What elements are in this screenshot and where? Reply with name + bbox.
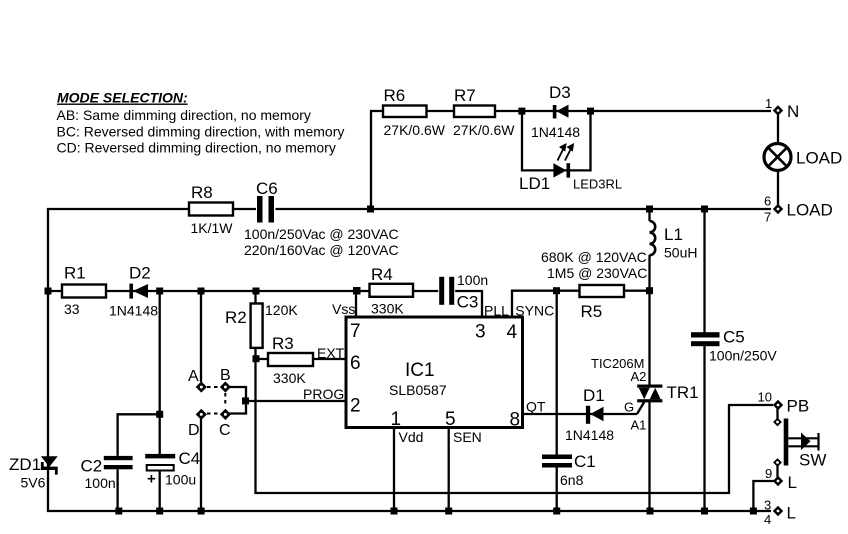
svg-text:L: L — [788, 473, 797, 492]
svg-text:3: 3 — [764, 498, 771, 513]
svg-text:PLL: PLL — [484, 303, 509, 319]
svg-text:L1: L1 — [664, 225, 683, 244]
svg-text:5V6: 5V6 — [21, 475, 46, 491]
svg-text:R1: R1 — [64, 264, 86, 283]
svg-text:IC1: IC1 — [405, 360, 435, 381]
svg-text:SYNC: SYNC — [515, 303, 554, 319]
svg-text:R6: R6 — [384, 86, 406, 105]
svg-text:C4: C4 — [179, 449, 201, 468]
svg-text:27K/0.6W: 27K/0.6W — [453, 122, 515, 138]
svg-text:100n: 100n — [85, 475, 116, 491]
svg-text:PB: PB — [787, 397, 810, 416]
svg-text:680K @ 120VAC: 680K @ 120VAC — [541, 249, 647, 265]
svg-text:EXT: EXT — [317, 345, 345, 361]
svg-text:R7: R7 — [454, 86, 476, 105]
svg-text:1N4148: 1N4148 — [531, 124, 580, 140]
svg-text:3: 3 — [475, 322, 486, 343]
svg-text:SEN: SEN — [453, 429, 482, 445]
svg-text:A1: A1 — [631, 418, 647, 433]
svg-text:LOAD: LOAD — [787, 201, 833, 220]
svg-text:100u: 100u — [165, 472, 196, 488]
svg-text:8: 8 — [510, 410, 521, 431]
svg-text:6: 6 — [764, 194, 771, 209]
svg-text:C3: C3 — [457, 293, 479, 312]
svg-text:SLB0587: SLB0587 — [389, 382, 447, 398]
svg-text:10: 10 — [758, 390, 772, 405]
svg-text:1N4148: 1N4148 — [565, 427, 614, 443]
svg-text:R8: R8 — [191, 183, 213, 202]
svg-text:A2: A2 — [631, 369, 647, 384]
svg-text:R3: R3 — [272, 334, 294, 353]
svg-text:Vdd: Vdd — [399, 429, 424, 445]
svg-text:D3: D3 — [549, 83, 571, 102]
svg-text:SW: SW — [799, 451, 826, 470]
svg-text:D2: D2 — [129, 264, 151, 283]
svg-text:2: 2 — [350, 396, 361, 417]
svg-text:1N4148: 1N4148 — [109, 303, 158, 319]
svg-text:N: N — [787, 102, 799, 121]
svg-text:LED3RL: LED3RL — [573, 177, 622, 192]
svg-text:1: 1 — [391, 409, 402, 430]
svg-text:R5: R5 — [581, 302, 603, 321]
svg-text:QT: QT — [526, 399, 546, 415]
svg-text:100n/250Vac @ 230VAC: 100n/250Vac @ 230VAC — [244, 226, 399, 242]
svg-text:Vss: Vss — [332, 301, 355, 317]
svg-text:C2: C2 — [81, 457, 103, 476]
svg-text:A: A — [188, 368, 199, 385]
svg-text:+: + — [147, 471, 156, 488]
svg-text:BC: Reversed dimming direction: BC: Reversed dimming direction, with mem… — [57, 124, 345, 140]
svg-text:120K: 120K — [265, 302, 298, 318]
svg-text:CD: Reversed dimming direction: CD: Reversed dimming direction, no memor… — [57, 140, 336, 156]
svg-text:33: 33 — [64, 301, 80, 317]
svg-text:220n/160Vac @ 120VAC: 220n/160Vac @ 120VAC — [244, 242, 399, 258]
svg-text:1M5 @ 230VAC: 1M5 @ 230VAC — [547, 265, 647, 281]
svg-text:6n8: 6n8 — [560, 472, 584, 488]
svg-text:TR1: TR1 — [667, 383, 699, 402]
svg-text:R2: R2 — [225, 308, 247, 327]
svg-text:1K/1W: 1K/1W — [191, 220, 234, 236]
svg-text:4: 4 — [764, 512, 771, 527]
svg-text:7: 7 — [350, 321, 361, 342]
svg-text:C5: C5 — [723, 328, 745, 347]
svg-text:100n/250V: 100n/250V — [709, 348, 777, 364]
svg-text:5: 5 — [445, 409, 456, 430]
svg-text:L: L — [787, 504, 796, 523]
svg-text:D: D — [188, 422, 200, 439]
svg-text:C1: C1 — [574, 452, 596, 471]
svg-text:1: 1 — [765, 96, 772, 111]
svg-text:4: 4 — [507, 322, 518, 343]
svg-text:AB: Same dimming direction, no: AB: Same dimming direction, no memory — [57, 107, 311, 123]
svg-text:PROG: PROG — [303, 386, 344, 402]
svg-text:LD1: LD1 — [519, 174, 550, 193]
svg-text:100n: 100n — [457, 272, 488, 288]
svg-text:D1: D1 — [583, 386, 605, 405]
svg-text:LOAD: LOAD — [796, 149, 842, 168]
svg-text:330K: 330K — [273, 370, 306, 386]
svg-text:50uH: 50uH — [664, 245, 697, 261]
svg-text:C: C — [219, 422, 231, 439]
svg-text:9: 9 — [765, 466, 772, 481]
svg-text:B: B — [220, 367, 231, 384]
svg-text:MODE SELECTION:: MODE SELECTION: — [57, 90, 188, 106]
svg-text:7: 7 — [764, 210, 771, 225]
svg-text:ZD1: ZD1 — [9, 455, 41, 474]
svg-text:27K/0.6W: 27K/0.6W — [384, 122, 446, 138]
svg-text:6: 6 — [350, 353, 361, 374]
svg-text:330K: 330K — [371, 301, 404, 317]
svg-text:C6: C6 — [256, 179, 278, 198]
svg-text:G: G — [624, 400, 634, 415]
svg-text:R4: R4 — [371, 265, 393, 284]
